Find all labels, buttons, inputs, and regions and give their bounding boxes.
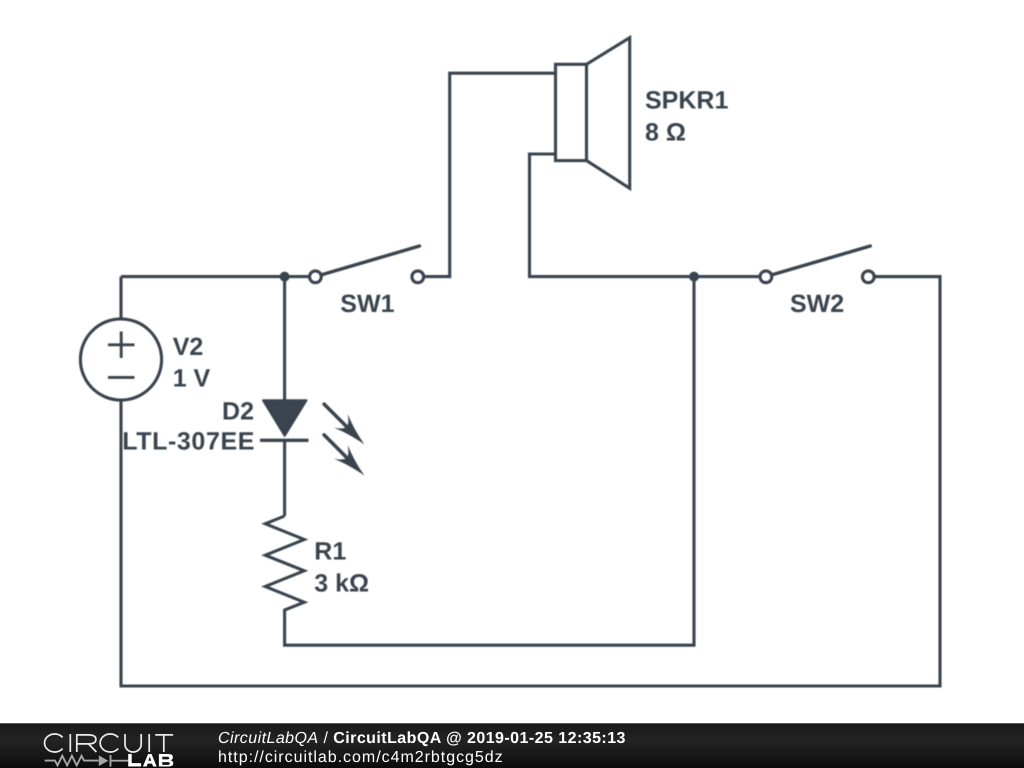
svg-text:8 Ω: 8 Ω xyxy=(645,118,686,146)
svg-text:1 V: 1 V xyxy=(173,365,211,393)
svg-text:V2: V2 xyxy=(173,333,204,361)
svg-text:SW2: SW2 xyxy=(790,290,844,318)
svg-text:D2: D2 xyxy=(222,398,254,426)
svg-text:SW1: SW1 xyxy=(340,290,394,318)
svg-text:R1: R1 xyxy=(314,538,346,566)
svg-text:LTL-307EE: LTL-307EE xyxy=(122,428,255,456)
svg-text:3 kΩ: 3 kΩ xyxy=(314,570,369,598)
svg-text:SPKR1: SPKR1 xyxy=(645,87,728,115)
